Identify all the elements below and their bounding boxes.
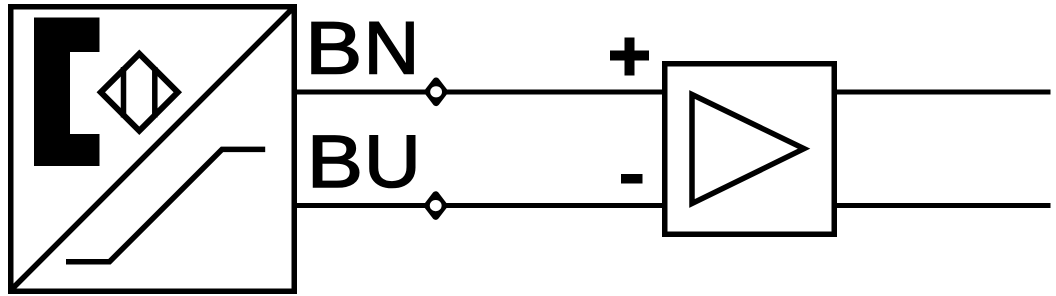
svg-text:U: U <box>364 121 421 203</box>
svg-text:N: N <box>364 8 420 90</box>
svg-text:B: B <box>305 7 362 89</box>
svg-text:B: B <box>307 120 363 203</box>
